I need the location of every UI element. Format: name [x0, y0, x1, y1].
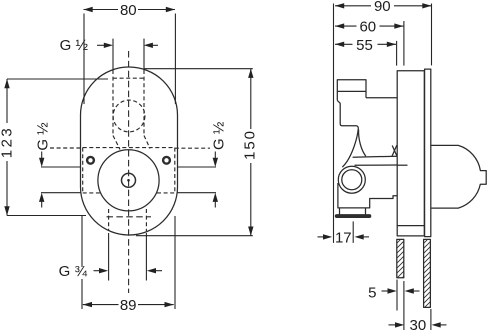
svg-text:G ½: G ½ — [211, 121, 228, 150]
G1/2 right hidden stub — [175, 147, 210, 149]
top G1/2 extension line left — [112, 39, 114, 70]
svg-text:G ¾: G ¾ — [59, 263, 88, 280]
foot connector left — [339, 208, 341, 215]
dim 17 right extension — [352, 221, 354, 243]
G1/2 top arrow left — [97, 44, 106, 46]
funnel face cross mark — [392, 146, 397, 156]
funnel rectangle — [397, 71, 424, 236]
svg-text:90: 90 — [374, 0, 391, 15]
svg-text:60: 60 — [359, 19, 376, 36]
G3/4 extension left — [108, 233, 110, 281]
dim 30 left arrow — [389, 324, 396, 326]
hidden upper port box right side — [143, 70, 145, 136]
screw hole right — [163, 157, 170, 164]
hidden flange rectangle bottom left — [83, 192, 100, 194]
G1/2 right port line upper — [177, 166, 216, 168]
side port ring inner — [342, 170, 362, 190]
G1/2 right port line lower — [177, 192, 216, 194]
dim 5 right arrow — [413, 290, 420, 292]
dim 89 extension right — [174, 216, 176, 309]
G3/4 arrow right — [153, 270, 162, 272]
body top block — [337, 80, 366, 101]
hidden lower port right side — [145, 209, 147, 231]
body top block divider — [337, 90, 366, 92]
lower port centerline — [107, 216, 152, 218]
dim 80 extension right — [174, 14, 176, 105]
funnel bottom seam — [397, 225, 424, 227]
dim 5 left extension — [396, 280, 398, 311]
svg-text:17: 17 — [335, 229, 352, 246]
svg-text:150: 150 — [242, 129, 259, 160]
spout bottom line — [355, 164, 398, 166]
dim 17 right arrow — [363, 236, 370, 238]
hidden flange rectangle top — [83, 147, 175, 149]
G1/2 left down arrow — [41, 152, 43, 159]
svg-text:123: 123 — [0, 126, 15, 159]
dim 30 right arrow — [440, 324, 447, 326]
svg-text:80: 80 — [120, 2, 137, 19]
dim 150 line — [250, 69, 252, 129]
G1/2 top arrow right — [150, 44, 158, 46]
G1/2 left port line upper — [41, 166, 81, 168]
hidden neck right — [144, 136, 150, 149]
valve circle — [98, 150, 159, 211]
dim 89 line — [83, 304, 119, 306]
body top edge to funnel — [366, 97, 397, 99]
hidden neck left — [113, 136, 120, 150]
screw hole left — [87, 157, 94, 164]
hidden lower port left side — [108, 209, 110, 231]
dim 60 line — [335, 25, 357, 27]
svg-text:30: 30 — [410, 317, 427, 330]
G1/2 right down arrow — [214, 152, 216, 159]
hidden cartridge circle — [113, 100, 145, 132]
side port ring outer — [338, 166, 365, 193]
dim 123 top reference — [7, 78, 108, 80]
svg-text:89: 89 — [120, 297, 137, 314]
front view plate outline — [81, 67, 178, 235]
G1/2 left up arrow — [41, 196, 43, 208]
hidden flange rectangle right — [174, 148, 176, 193]
dim 123 line — [6, 79, 8, 123]
G3/4 extension right — [145, 233, 147, 281]
G3/4 arrow left — [94, 270, 102, 272]
foot connector right — [365, 208, 367, 215]
spout top line — [353, 156, 398, 157]
funnel joint arc — [392, 145, 397, 156]
G1/2 left port line lower — [41, 192, 81, 194]
valve inner circle — [122, 173, 136, 187]
G1/2 right up arrow — [214, 196, 216, 208]
svg-text:G ½: G ½ — [35, 122, 52, 151]
hidden upper port box left side — [112, 70, 114, 136]
dim 55 line — [335, 43, 353, 45]
wall hatch bar left — [397, 239, 404, 277]
hidden flange rectangle bottom right — [157, 192, 175, 194]
G1/2 left hidden stub — [50, 147, 83, 149]
hidden upper port box top — [113, 77, 144, 79]
dim 90 extension right — [431, 4, 433, 66]
wall plate — [425, 69, 431, 237]
dim 80 line — [84, 9, 119, 11]
dome outline — [431, 145, 486, 208]
dim 5 left arrow — [382, 290, 389, 292]
top G1/2 extension line right — [143, 39, 145, 70]
dim 5 right extension — [403, 281, 405, 330]
svg-text:5: 5 — [368, 284, 376, 301]
hidden flange rectangle left — [82, 148, 84, 193]
dim 90 line — [335, 5, 371, 7]
dim 150 bottom reference — [136, 235, 253, 237]
dim 123 bottom reference — [7, 215, 86, 217]
vertical centerline — [128, 51, 130, 293]
body left profile — [337, 100, 358, 167]
dim 55 extension right — [396, 41, 398, 66]
body below ring left edge — [338, 183, 397, 208]
svg-text:55: 55 — [356, 37, 373, 54]
dim 17 left arrow — [318, 236, 325, 238]
svg-text:G ½: G ½ — [60, 37, 89, 54]
valve center dot — [127, 179, 130, 182]
funnel inner faint line — [397, 164, 407, 166]
wall hatch bar right — [424, 239, 431, 307]
dim 89 extension left — [81, 216, 83, 267]
dim 150 top reference — [144, 68, 253, 70]
foot flange — [335, 215, 371, 218]
dim 80 extension left — [83, 14, 85, 105]
side view: shared left extension line — [333, 4, 335, 243]
neck inner contour — [359, 130, 366, 157]
dim 60 extension right — [403, 21, 405, 66]
dim 30 right extension — [430, 309, 432, 330]
